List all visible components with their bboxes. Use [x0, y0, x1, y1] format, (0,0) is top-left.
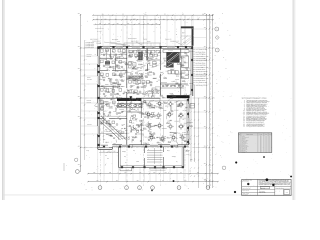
svg-text:1.02: 1.02: [149, 114, 152, 116]
svg-text:h=2.8: h=2.8: [101, 85, 104, 87]
svg-text:1.02: 1.02: [113, 103, 116, 105]
svg-text:зал: зал: [124, 127, 126, 129]
svg-text:стойка 100x100: стойка 100x100: [92, 41, 100, 43]
svg-text:12,45: 12,45: [177, 63, 180, 65]
svg-text:h=2.8: h=2.8: [182, 80, 185, 82]
svg-text:сц.1: сц.1: [121, 70, 124, 72]
svg-text:зал: зал: [106, 142, 108, 144]
svg-text:отмостка: отмостка: [87, 102, 92, 104]
svg-text:зашивка ГВЛ в 2 слоя: зашивка ГВЛ в 2 слоя: [196, 78, 209, 80]
under-wall dim marks: [100, 151, 118, 153]
svg-text:А-А: А-А: [100, 108, 102, 110]
building outer walls: [98, 45, 194, 47]
svg-text:0,000: 0,000: [148, 90, 151, 92]
scan speckle noise: [115, 108, 118, 110]
svg-text:3,6x2,4: 3,6x2,4: [178, 84, 182, 86]
left wall: [97, 46, 99, 149]
svg-text:s=12.5: s=12.5: [135, 104, 139, 106]
svg-text:0,000: 0,000: [121, 86, 124, 88]
svg-text:Ø100: Ø100: [179, 113, 182, 115]
terrace hatch extra: [183, 39, 191, 46]
door swing arcs: [114, 55, 116, 58]
dark counter bar hall: [117, 98, 141, 101]
interior wall horizontal F: [100, 85, 120, 87]
svg-text:Ø100: Ø100: [175, 58, 178, 60]
svg-text:12,45: 12,45: [169, 66, 172, 68]
svg-text:А-А: А-А: [99, 99, 101, 101]
interior wall horizontal E: [100, 70, 108, 72]
svg-text:зал: зал: [148, 138, 150, 140]
svg-text:250: 250: [110, 134, 112, 136]
svg-text:перегородка 120 мм: перегородка 120 мм: [196, 84, 208, 86]
extension lines top: [97, 15, 99, 46]
svg-text:12,45: 12,45: [168, 141, 171, 143]
extension lines right: [193, 28, 206, 30]
svg-text:250: 250: [188, 142, 190, 144]
svg-text:сц.1: сц.1: [144, 101, 147, 103]
entrance steps: [147, 150, 163, 152]
svg-text:этажа. М 1:100: этажа. М 1:100: [259, 192, 266, 194]
svg-text:250: 250: [119, 118, 121, 120]
svg-text:s=12.5: s=12.5: [183, 94, 187, 96]
svg-text:Ø100: Ø100: [189, 83, 192, 85]
canopy outline: [124, 43, 160, 46]
svg-text:0,000: 0,000: [115, 57, 118, 59]
interior wall horizontal D: [100, 57, 113, 59]
svg-text:s=12.5: s=12.5: [121, 99, 125, 101]
svg-text:250: 250: [175, 95, 177, 97]
svg-text:перегородка 120 мм: перегородка 120 мм: [196, 60, 208, 62]
svg-text:1200: 1200: [163, 110, 166, 112]
svg-text:0,000: 0,000: [189, 125, 192, 127]
cross symbols hall: [129, 125, 131, 127]
svg-text:12,45: 12,45: [127, 104, 130, 106]
svg-text:Изм Кол Лист Подп: Изм Кол Лист Подп: [242, 187, 251, 189]
svg-text:тамбур: тамбур: [172, 156, 176, 158]
svg-text:А-А: А-А: [137, 70, 139, 72]
svg-text:пол кер.: пол кер.: [174, 121, 179, 123]
svg-text:1200: 1200: [118, 112, 121, 114]
svg-text:А-А: А-А: [120, 47, 122, 49]
svg-text:от 12.03.2019 г.: от 12.03.2019 г.: [242, 181, 249, 183]
svg-text:ограждение h=1,2: ограждение h=1,2: [170, 41, 179, 43]
sheet right edge line: [293, 0, 294, 200]
svg-text:короб вентблока: короб вентблока: [196, 69, 206, 71]
wall piers dark chunks: [99, 46, 101, 48]
interior wall horizontal H: [100, 118, 104, 120]
svg-text:24-19-АР: 24-19-АР: [261, 187, 265, 189]
interior partition diagonals lower-left: [101, 116, 126, 140]
svg-text:сц.1: сц.1: [100, 75, 103, 77]
svg-text:1200: 1200: [137, 55, 140, 57]
svg-text:1.02: 1.02: [106, 134, 109, 136]
black wall section bar: [167, 95, 190, 98]
svg-text:+0,750: +0,750: [150, 72, 154, 74]
svg-text:А-А: А-А: [176, 104, 178, 106]
svg-text:1.02: 1.02: [123, 110, 126, 112]
exterior unit right wall: [190, 104, 194, 109]
svg-text:сц.1: сц.1: [130, 96, 133, 98]
svg-text:узел 1: узел 1: [139, 70, 143, 72]
sheet bottom edge line: [3, 194, 293, 197]
leader note texts: [193, 49, 195, 51]
svg-text:1200: 1200: [102, 77, 105, 79]
svg-text:1.02: 1.02: [118, 67, 121, 69]
svg-text:Ø100: Ø100: [106, 50, 109, 52]
dining tables with chairs: [148, 103, 151, 106]
interior wall x147: [147, 48, 149, 60]
left dimension chain: [80, 14, 82, 172]
svg-text:зал: зал: [150, 100, 152, 102]
bar counter: [160, 83, 188, 85]
svg-text:s=12.5: s=12.5: [141, 122, 145, 124]
dark object left col: [105, 62, 110, 65]
svg-text:250: 250: [175, 74, 177, 76]
svg-text:+0,750: +0,750: [145, 63, 149, 65]
svg-text:сц.1: сц.1: [145, 73, 148, 75]
svg-text:h=2.8: h=2.8: [128, 111, 131, 113]
svg-text:пол кер.: пол кер.: [158, 137, 163, 139]
svg-text:12,45: 12,45: [137, 58, 140, 60]
sink row below stair: [168, 71, 171, 74]
svg-text:кухня: кухня: [184, 140, 188, 142]
svg-text:3,6x2,4: 3,6x2,4: [127, 125, 131, 127]
svg-text:h=2.8: h=2.8: [137, 49, 140, 51]
svg-text:короб вентблока: короб вентблока: [196, 51, 206, 53]
kitchen second row: [130, 54, 133, 56]
svg-text:навес профнаст.: навес профнаст.: [90, 39, 99, 41]
svg-text:12,45: 12,45: [103, 110, 106, 112]
svg-text:узел 1: узел 1: [173, 80, 177, 82]
svg-text:зал: зал: [160, 61, 162, 63]
svg-text:Ø100: Ø100: [142, 83, 145, 85]
svg-text:s=12.5: s=12.5: [103, 59, 107, 61]
svg-text:Ø100: Ø100: [165, 106, 168, 108]
svg-text:кухня: кухня: [117, 86, 121, 88]
svg-text:стена ГКЛ 100мм: стена ГКЛ 100мм: [196, 58, 206, 60]
svg-text:Ø100: Ø100: [105, 102, 108, 104]
svg-text:250: 250: [107, 88, 109, 90]
svg-text:вход: вход: [167, 150, 170, 152]
svg-text:3,6x2,4: 3,6x2,4: [136, 87, 140, 89]
svg-text:1.02: 1.02: [123, 73, 126, 75]
bottom wall: [98, 148, 113, 150]
svg-text:3,6x2,4: 3,6x2,4: [156, 118, 160, 120]
interior wall vertical A: [126, 48, 128, 88]
svg-text:1200: 1200: [174, 101, 177, 103]
grid axis lines horizontal: [80, 47, 215, 49]
svg-text:отмостка: отмостка: [87, 100, 92, 102]
svg-text:0,000: 0,000: [163, 77, 166, 79]
svg-text:А-А: А-А: [112, 51, 114, 53]
svg-text:терраса отм.: терраса отм.: [165, 39, 172, 41]
svg-text:сц.1: сц.1: [113, 137, 116, 139]
svg-text:250: 250: [146, 52, 148, 54]
svg-text:12,45: 12,45: [138, 79, 141, 81]
svg-text:А-А: А-А: [145, 69, 147, 71]
schedule table: [238, 133, 271, 136]
svg-text:Загрузочная с тамбуром и платф: Загрузочная с тамбуром и платформой: [246, 114, 267, 116]
svg-text:3,6x2,4: 3,6x2,4: [184, 123, 188, 125]
svg-text:12,45: 12,45: [140, 77, 143, 79]
svg-text:А-А: А-А: [155, 63, 157, 65]
vertical partition x110 top: [110, 48, 112, 58]
svg-text:12,45: 12,45: [146, 142, 149, 144]
svg-text:обозначение осей: обозначение осей: [95, 28, 104, 30]
svg-text:s=12.5: s=12.5: [144, 136, 148, 138]
svg-text:1200: 1200: [130, 89, 133, 91]
bottom dimension chains: [88, 173, 218, 175]
svg-text:h=2.8: h=2.8: [138, 63, 141, 65]
basement stair arrow: [130, 96, 133, 101]
svg-text:вход: вход: [87, 150, 90, 152]
svg-text:+0,750: +0,750: [164, 102, 168, 104]
svg-text:кухня: кухня: [126, 132, 130, 134]
svg-text:250: 250: [164, 65, 166, 67]
svg-text:утеплитель 50мм: утеплитель 50мм: [196, 76, 206, 78]
svg-text:кухня: кухня: [186, 85, 190, 87]
svg-text:+0,750: +0,750: [182, 132, 186, 134]
svg-text:отмостка: отмостка: [87, 124, 92, 126]
svg-text:отм. +0,750 пол кер.: отм. +0,750 пол кер.: [196, 82, 208, 84]
svg-text:зашивка ГВЛ в 2 слоя: зашивка ГВЛ в 2 слоя: [196, 56, 209, 58]
title block black dots: [247, 183, 249, 185]
interior wall vertical B: [159, 48, 161, 70]
svg-text:сц.1: сц.1: [145, 76, 148, 78]
svg-text:сц.1: сц.1: [105, 90, 108, 92]
svg-text:Ø100: Ø100: [158, 52, 161, 54]
extension lines left: [81, 47, 98, 49]
svg-text:узел 1: узел 1: [181, 76, 185, 78]
grid bubble left: [76, 170, 80, 174]
svg-text:Ø100: Ø100: [105, 84, 108, 86]
svg-text:А-А: А-А: [166, 70, 168, 72]
svg-text:А-А: А-А: [133, 64, 135, 66]
svg-text:А-А: А-А: [162, 96, 164, 98]
svg-text:1.02: 1.02: [153, 114, 156, 116]
svg-text:250: 250: [136, 60, 138, 62]
svg-text:Разраб. Иванов: Разраб. Иванов: [242, 190, 249, 192]
svg-text:сц.1: сц.1: [140, 67, 143, 69]
svg-text:Коридор: Коридор: [242, 151, 246, 153]
svg-text:ООО: ООО: [286, 192, 288, 194]
svg-text:утеплитель 50мм: утеплитель 50мм: [196, 65, 206, 67]
svg-text:кухня: кухня: [148, 123, 152, 125]
svg-text:А-А: А-А: [121, 104, 123, 106]
svg-text:+0,750: +0,750: [181, 57, 185, 59]
interior wall horizontal G: [100, 97, 131, 99]
svg-text:Ø100: Ø100: [138, 83, 141, 85]
svg-text:окно ОК-1: окно ОК-1: [87, 79, 92, 81]
svg-text:водосток Ø100: водосток Ø100: [131, 40, 139, 42]
svg-text:12,45: 12,45: [126, 78, 129, 80]
svg-text:+0,750: +0,750: [114, 93, 118, 95]
wc fixtures left rooms: [101, 49, 104, 52]
svg-text:250: 250: [170, 63, 172, 65]
title block stamp box: [284, 190, 290, 195]
top dimension chains: [93, 14, 213, 16]
svg-text:1200: 1200: [110, 88, 113, 90]
title block frame: [242, 179, 291, 195]
internal dimension ticks: [101, 54, 126, 56]
svg-text:зал: зал: [170, 131, 172, 133]
svg-text:пол кер.: пол кер.: [121, 138, 126, 140]
svg-text:кухня: кухня: [171, 94, 175, 96]
counter band left-middle: [128, 75, 144, 77]
svg-text:1.02: 1.02: [104, 95, 107, 97]
svg-text:1200: 1200: [189, 47, 192, 49]
extension lines bottom: [97, 150, 99, 181]
hall partition: [127, 111, 141, 113]
wing stoop: [119, 168, 121, 171]
svg-text:0,000: 0,000: [99, 79, 102, 81]
svg-text:+0,750: +0,750: [142, 94, 146, 96]
svg-text:кухня: кухня: [160, 95, 164, 97]
svg-text:1200: 1200: [138, 126, 141, 128]
svg-text:Наименование: Наименование: [246, 134, 253, 136]
buffet top right room: [163, 50, 189, 53]
svg-text:Ø100: Ø100: [105, 103, 108, 105]
svg-text:3,6x2,4: 3,6x2,4: [153, 77, 157, 79]
title block dividers: [257, 179, 259, 195]
svg-text:12,45: 12,45: [177, 87, 180, 89]
svg-text:зал: зал: [131, 71, 133, 73]
grid axis lines vertical: [100, 16, 102, 186]
svg-text:парапет: парапет: [143, 39, 148, 41]
svg-text:см. лист 2: см. лист 2: [97, 31, 102, 33]
svg-text:0,000: 0,000: [179, 73, 182, 75]
svg-text:отм. +0,750 пол кер.: отм. +0,750 пол кер.: [196, 49, 208, 51]
svg-text:0,000: 0,000: [113, 111, 116, 113]
svg-text:h=2.8: h=2.8: [148, 57, 151, 59]
svg-text:перегородка 120 мм: перегородка 120 мм: [196, 73, 208, 75]
svg-text:3,6x2,4: 3,6x2,4: [171, 84, 175, 86]
svg-text:12,45: 12,45: [131, 122, 134, 124]
svg-text:+0,750: +0,750: [183, 110, 187, 112]
svg-text:свес кровли: свес кровли: [112, 39, 118, 41]
right wall lower: [188, 98, 190, 145]
svg-text:3,6x2,4: 3,6x2,4: [170, 68, 174, 70]
svg-text:зал: зал: [101, 124, 103, 126]
svg-text:площадка входа: площадка входа: [86, 46, 95, 48]
svg-text:1.02: 1.02: [166, 84, 169, 86]
svg-text:Б: Б: [216, 29, 217, 31]
svg-text:пол кер.: пол кер.: [171, 61, 176, 63]
svg-text:окно ОК-1: окно ОК-1: [87, 54, 92, 56]
svg-text:зал: зал: [119, 94, 121, 96]
terrace wall top-right thick L: [181, 26, 194, 28]
svg-text:250: 250: [121, 128, 123, 130]
svg-text:кровля козырька: кровля козырька: [128, 38, 137, 40]
svg-text:1.02: 1.02: [103, 119, 106, 121]
svg-text:ГИП Сидоров: ГИП Сидоров: [242, 194, 248, 196]
svg-text:площадка: площадка: [96, 43, 102, 45]
svg-text:зал: зал: [135, 136, 137, 138]
interior wall vertical C: [140, 98, 142, 118]
svg-text:вход: вход: [190, 159, 193, 161]
svg-text:А-А: А-А: [157, 141, 159, 143]
svg-text:12,45: 12,45: [180, 134, 183, 136]
svg-text:s=12.5: s=12.5: [173, 132, 177, 134]
svg-text:Ø100: Ø100: [151, 116, 154, 118]
svg-text:пол кер.: пол кер.: [174, 110, 179, 112]
svg-text:зал: зал: [128, 139, 130, 141]
svg-text:цоколь: цоколь: [87, 77, 91, 79]
stair block hatched: [167, 52, 180, 62]
svg-text:отмостка: отмостка: [87, 56, 92, 58]
svg-text:узел 1: узел 1: [150, 133, 154, 135]
grid bubbles bottom: [98, 186, 102, 190]
svg-text:1.02: 1.02: [108, 123, 111, 125]
wall x181: [180, 48, 182, 58]
svg-text:Венткамера приточно-вытяжная: Венткамера приточно-вытяжная: [246, 121, 264, 123]
svg-text:А-А: А-А: [101, 132, 103, 134]
svg-text:h=2.8: h=2.8: [121, 131, 124, 133]
stray ink dots: [235, 162, 237, 164]
svg-text:узел 1: узел 1: [117, 130, 121, 132]
svg-text:зал: зал: [150, 129, 152, 131]
outside steps below wing: [149, 168, 167, 170]
svg-text:тамбур: тамбур: [122, 151, 126, 153]
svg-text:перегородка 120 мм: перегородка 120 мм: [196, 71, 208, 73]
grid bubbles right: [215, 27, 219, 31]
wing partitions: [144, 147, 146, 153]
svg-text:колпак: колпак: [147, 41, 151, 43]
entrance wing: [118, 147, 120, 168]
svg-text:зал: зал: [136, 110, 138, 112]
plan texture: misc short lines: [185, 93, 187, 96]
svg-text:зал: зал: [123, 92, 125, 94]
right wall upper: [192, 46, 194, 96]
svg-text:3,6x2,4: 3,6x2,4: [116, 97, 120, 99]
svg-text:0,000: 0,000: [136, 130, 139, 132]
svg-text:12,45: 12,45: [104, 130, 107, 132]
svg-text:узел 1: узел 1: [152, 47, 156, 49]
svg-text:сц.1: сц.1: [134, 79, 137, 81]
svg-text:Стадия Лист Листов: Стадия Лист Листов: [276, 187, 285, 189]
svg-text:+0,750: +0,750: [115, 71, 119, 73]
svg-text:стена ГКЛ 100мм: стена ГКЛ 100мм: [196, 54, 206, 56]
svg-text:пол кер.: пол кер.: [187, 70, 192, 72]
svg-text:зал: зал: [176, 138, 178, 140]
svg-text:1.02: 1.02: [108, 120, 111, 122]
svg-text:узел 1: узел 1: [156, 65, 160, 67]
svg-text:пол кер.: пол кер.: [103, 98, 108, 100]
svg-text:0,000: 0,000: [113, 67, 116, 69]
dark equipment blob center-top: [139, 52, 143, 60]
svg-text:А-А: А-А: [116, 64, 118, 66]
svg-text:1.02: 1.02: [110, 78, 113, 80]
svg-text:кухня: кухня: [147, 60, 151, 62]
svg-text:h=2.8: h=2.8: [140, 74, 143, 76]
svg-text:250: 250: [180, 87, 182, 89]
svg-text:пол кер.: пол кер.: [189, 51, 194, 53]
svg-text:+0,750: +0,750: [172, 54, 176, 56]
svg-text:узел 1: узел 1: [166, 122, 170, 124]
svg-text:Ø100: Ø100: [128, 56, 131, 58]
svg-text:Лестничная клетка служебная ту: Лестничная клетка служебная туп.: [246, 126, 265, 128]
svg-text:h=2.8: h=2.8: [163, 57, 166, 59]
svg-text:h=2.8: h=2.8: [122, 124, 125, 126]
title block row2 box: [260, 187, 270, 189]
svg-text:3,6x2,4: 3,6x2,4: [159, 107, 163, 109]
svg-text:250: 250: [140, 140, 142, 142]
svg-text:3,6x2,4: 3,6x2,4: [135, 68, 139, 70]
svg-text:сц.1: сц.1: [123, 80, 126, 82]
svg-text:+0,750: +0,750: [185, 74, 189, 76]
svg-text:короб вентблока: короб вентблока: [196, 80, 206, 82]
svg-text:вход: вход: [187, 154, 190, 156]
